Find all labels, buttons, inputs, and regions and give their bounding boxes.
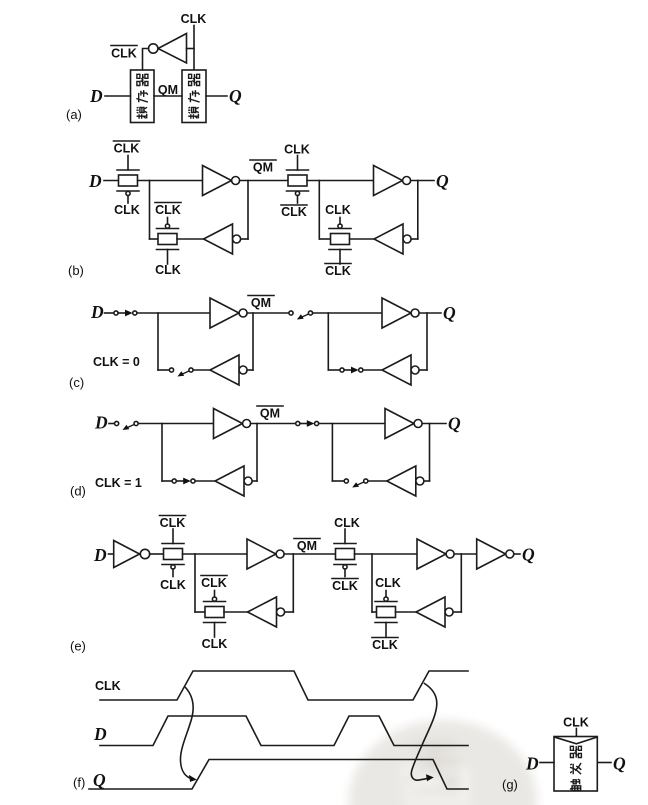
- wire S4 to feedback inverter (c2): [363, 369, 382, 371]
- svg-text:Q: Q: [436, 171, 449, 191]
- svg-text:CLK: CLK: [181, 12, 207, 26]
- wire Q node vertical (e): [460, 554, 462, 612]
- svg-text:(f): (f): [73, 775, 85, 790]
- inverter U1 clock inverter: [149, 34, 195, 64]
- node junction vertical (c2): [327, 313, 329, 370]
- inverter U4 forward (b2): [374, 166, 411, 196]
- svg-text:D: D: [94, 413, 108, 433]
- wire D to input inverter: [109, 553, 114, 555]
- switch S8 open feedback (d2): [344, 479, 368, 488]
- label QMbar (d): [257, 406, 283, 421]
- wire junction to TG6: [195, 611, 205, 613]
- wire Q node vertical (c): [426, 313, 428, 370]
- wire feedback inverter to QM node (d1): [252, 480, 257, 482]
- inverter U15 forward (e1): [247, 539, 284, 569]
- svg-text:CLK: CLK: [372, 638, 398, 652]
- wire junction to TG8: [372, 611, 377, 613]
- svg-text:(d): (d): [70, 484, 86, 499]
- svg-text:CLK: CLK: [111, 47, 137, 61]
- switch S5 open: [115, 421, 139, 430]
- svg-text:CLK: CLK: [375, 576, 401, 590]
- wire inverter out to Q: [411, 180, 434, 182]
- inverter U19 feedback (e2): [416, 597, 453, 627]
- switch S1 closed: [114, 310, 137, 317]
- wire TG2 to feedback inverter: [177, 238, 204, 240]
- wire Q node vertical: [417, 181, 419, 240]
- label QMbar (e): [294, 539, 320, 554]
- switch S4 closed feedback (c2): [340, 367, 363, 374]
- switch S3 open (c mid): [289, 311, 313, 320]
- svg-text:Q: Q: [522, 545, 535, 565]
- node junction vertical (e1): [194, 554, 196, 612]
- wire feedback inverter to Q node (d2): [424, 480, 430, 482]
- wire inverter out to Q (c): [419, 312, 441, 314]
- svg-text:CLK: CLK: [202, 637, 228, 651]
- inverter U18 output: [477, 539, 514, 569]
- wire feedback inverter to QM node (e1): [285, 611, 294, 613]
- wire TG1 to inverter: [138, 180, 203, 182]
- inverter U10 forward (d1): [214, 409, 251, 439]
- wire Q output (a): [206, 95, 227, 97]
- svg-text:Q: Q: [229, 86, 242, 106]
- svg-text:(g): (g): [502, 777, 518, 792]
- wire Q output (g): [597, 762, 611, 764]
- wire S8 to feedback inverter (d2): [368, 480, 387, 482]
- wire S7 to inverter (d2): [319, 423, 385, 425]
- svg-text:CLK: CLK: [114, 203, 140, 217]
- svg-text:CLK: CLK: [160, 578, 186, 592]
- watermark stamp (faint): [349, 720, 537, 805]
- wire S3 to inverter (c2): [313, 312, 382, 314]
- wire inverter out to S3: [247, 312, 289, 314]
- svg-text:D: D: [88, 171, 102, 191]
- svg-text:D: D: [93, 724, 107, 744]
- svg-text:CLK: CLK: [95, 679, 121, 693]
- wire inverter out to S7: [251, 423, 296, 425]
- switch S6 closed feedback (d1): [172, 478, 195, 485]
- svg-text:(c): (c): [69, 375, 84, 390]
- svg-text:CLK: CLK: [160, 516, 186, 530]
- transmission gate TG6 feedback: [204, 591, 226, 638]
- svg-text:CLK: CLK: [563, 716, 589, 730]
- wire feedback inverter to Q node: [411, 238, 418, 240]
- wire inverter out to Q (d): [422, 423, 446, 425]
- label CLKbar above TG2: [155, 203, 181, 218]
- wire D to switch S1: [105, 312, 115, 314]
- svg-text:CLK: CLK: [201, 576, 227, 590]
- label QMbar (c): [248, 296, 274, 311]
- wire output inverter to Q: [514, 553, 520, 555]
- waveform D: [100, 716, 468, 746]
- wire feedback inverter to QM node (c1): [247, 369, 253, 371]
- wire inverter out to output inverter: [454, 553, 477, 555]
- wire TG4 to feedback inverter (b2): [350, 238, 375, 240]
- wire feedback inverter to QM node: [241, 238, 248, 240]
- svg-text:(b): (b): [68, 263, 84, 278]
- wire QM node vertical (d): [256, 424, 258, 482]
- switch S7 closed (d mid): [296, 420, 319, 427]
- svg-text:QM: QM: [253, 161, 273, 175]
- wire S1 to inverter (c1): [137, 312, 210, 314]
- wire S2 to feedback inverter (c1): [193, 369, 210, 371]
- wire inverter out to TG3: [240, 180, 288, 182]
- node junction vertical (b2): [318, 181, 320, 240]
- transmission gate TG4 feedback: [329, 218, 351, 265]
- svg-text:Q: Q: [613, 754, 626, 774]
- wire junction to TG4: [319, 238, 330, 240]
- wire TG7 to inverter (e2): [355, 553, 418, 555]
- inverter U7 feedback (c1): [210, 355, 247, 385]
- waveform Q: [89, 760, 468, 790]
- svg-text:D: D: [90, 302, 104, 322]
- inverter U13 feedback (d2): [387, 466, 424, 496]
- wire junction to TG2: [150, 238, 159, 240]
- svg-text:CLK: CLK: [155, 203, 181, 217]
- inverter U6 forward (c1): [210, 298, 247, 328]
- wire D input (a): [105, 95, 131, 97]
- wire junction to S2: [158, 369, 169, 371]
- svg-text:(a): (a): [66, 107, 82, 122]
- wire junction to S8: [332, 480, 344, 482]
- svg-text:CLK: CLK: [155, 263, 181, 277]
- svg-text:CLK: CLK: [281, 205, 307, 219]
- wire TG8 to feedback inverter (e2): [396, 611, 417, 613]
- wire TG6 to feedback inverter (e1): [224, 611, 248, 613]
- wire inverter out to TG7: [284, 553, 335, 555]
- svg-text:Q: Q: [93, 770, 106, 790]
- svg-text:CLK: CLK: [332, 579, 358, 593]
- wire CLK into notch: [575, 729, 577, 743]
- svg-text:D: D: [93, 545, 107, 565]
- transmission gate TG3: [287, 156, 309, 204]
- transmission gate TG5: [162, 529, 184, 577]
- label CLKbar below TG8: [372, 638, 398, 653]
- svg-text:QM: QM: [297, 539, 317, 553]
- node junction vertical (e2): [371, 554, 373, 612]
- wire feedback inverter to Q node (c2): [419, 369, 427, 371]
- wire input inverter to TG5: [150, 553, 164, 555]
- transmission gate TG1: [117, 156, 139, 204]
- wire CLKbar from bubble to latch1: [143, 49, 149, 71]
- node junction vertical (b1): [149, 181, 151, 240]
- inverter U3 feedback (b1): [204, 224, 241, 254]
- arrow CLK edge 2 to Q fall: [411, 684, 436, 782]
- wire QM node vertical (e): [292, 554, 294, 612]
- wire CLK down to latch2: [193, 26, 195, 71]
- svg-text:D: D: [89, 86, 103, 106]
- svg-text:CLK = 0: CLK = 0: [93, 355, 140, 369]
- svg-text:CLK: CLK: [284, 143, 310, 157]
- wire junction to S6: [162, 480, 172, 482]
- svg-text:QM: QM: [158, 83, 178, 97]
- transmission gate TG8 feedback: [375, 591, 397, 638]
- wire S5 to inverter (d1): [138, 423, 213, 425]
- wire TG3 to inverter (b2): [307, 180, 374, 182]
- wire D to TG1: [104, 180, 119, 182]
- wire D input (g): [540, 762, 554, 764]
- wire feedback inverter to Q node (e2): [453, 611, 461, 613]
- svg-text:CLK = 1: CLK = 1: [95, 476, 142, 490]
- svg-text:CLK: CLK: [325, 203, 351, 217]
- latch 1 box 锁存器: [131, 70, 155, 123]
- node junction vertical (d1): [161, 424, 163, 482]
- svg-text:(e): (e): [70, 639, 86, 654]
- wire QM between latches: [154, 95, 182, 97]
- latch 2 box 锁存器: [182, 70, 206, 123]
- inverter U12 forward (d2): [385, 409, 422, 439]
- wire QM node vertical: [247, 181, 249, 240]
- label CLKbar below TG3: [281, 205, 307, 219]
- wire Q node vertical (d): [429, 424, 431, 482]
- transmission gate TG7: [334, 529, 356, 577]
- svg-text:D: D: [525, 754, 539, 774]
- label CLKbar above TG1: [114, 141, 140, 156]
- svg-text:Q: Q: [443, 303, 456, 323]
- inverter U8 forward (c2): [382, 298, 419, 328]
- wire TG5 to inverter (e1): [183, 553, 248, 555]
- svg-text:CLK: CLK: [114, 142, 140, 156]
- wire D to switch S5: [109, 423, 115, 425]
- wire junction to S4: [328, 369, 340, 371]
- inverter U17 forward (e2): [417, 539, 454, 569]
- wire S6 to feedback inverter (d1): [195, 480, 215, 482]
- inverter U16 feedback (e1): [248, 597, 285, 627]
- inverter U2 forward (b1): [203, 166, 240, 196]
- label CLKbar below TG4: [325, 264, 351, 279]
- label CLKbar (a): [111, 46, 137, 61]
- transmission gate TG2 feedback: [157, 218, 179, 265]
- inverter U5 feedback (b2): [374, 224, 411, 254]
- svg-text:Q: Q: [448, 414, 461, 434]
- label CLKbar above TG5: [160, 516, 186, 531]
- node junction vertical (d2): [331, 424, 333, 482]
- arrow CLK edge 1 to Q rise: [180, 688, 196, 782]
- inverter U14 input: [114, 541, 150, 568]
- node junction vertical (c1): [157, 313, 159, 370]
- svg-text:QM: QM: [251, 296, 271, 310]
- switch S2 open feedback (c1): [169, 368, 193, 377]
- inverter U9 feedback (c2): [382, 355, 419, 385]
- label QMbar (b): [250, 160, 276, 175]
- inverter U11 feedback (d1): [215, 466, 252, 496]
- label CLKbar below TG7: [332, 579, 358, 594]
- svg-text:QM: QM: [260, 407, 280, 421]
- svg-text:CLK: CLK: [334, 516, 360, 530]
- wire QM node vertical (c): [252, 313, 254, 370]
- svg-text:CLK: CLK: [325, 264, 351, 278]
- label CLKbar above TG6: [201, 576, 227, 591]
- flip-flop box 触发器: [554, 737, 597, 792]
- waveform CLK: [100, 671, 468, 700]
